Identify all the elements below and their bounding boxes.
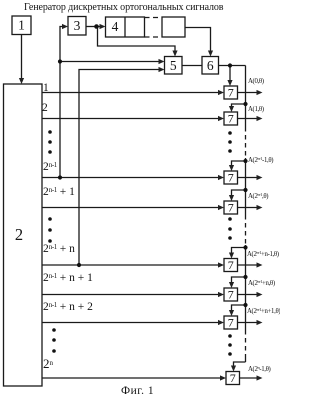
svg-text:6: 6 <box>207 58 214 73</box>
svg-text:3: 3 <box>74 18 81 33</box>
svg-text:7: 7 <box>228 112 234 126</box>
svg-text:7: 7 <box>228 171 234 185</box>
svg-text:7: 7 <box>230 371 236 385</box>
svg-text:2: 2 <box>15 225 23 244</box>
svg-text:4: 4 <box>112 19 119 34</box>
svg-text:7: 7 <box>228 316 234 330</box>
svg-text:7: 7 <box>228 86 234 100</box>
svg-text:7: 7 <box>228 288 234 302</box>
svg-text:7: 7 <box>228 258 234 272</box>
svg-text:5: 5 <box>170 58 177 73</box>
svg-text:7: 7 <box>228 201 234 215</box>
svg-text:1: 1 <box>18 18 25 33</box>
